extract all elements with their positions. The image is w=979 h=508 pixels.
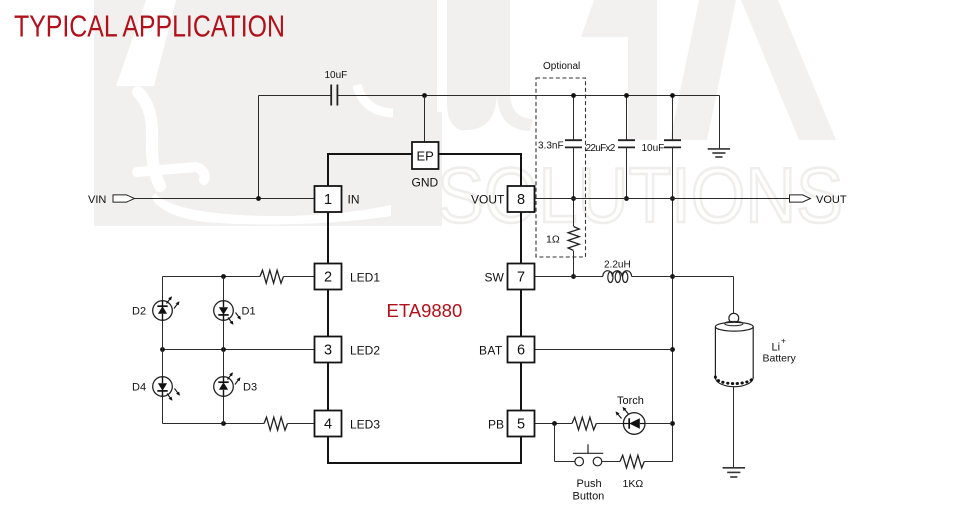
svg-text:Torch: Torch xyxy=(617,395,644,407)
capacitor C 10uF plates xyxy=(331,85,337,106)
pin 8 box xyxy=(508,186,535,212)
svg-text:LED2: LED2 xyxy=(350,343,380,357)
D2 arrows xyxy=(167,297,180,309)
wire c2 bottom xyxy=(626,147,628,198)
node junction top wire c1 xyxy=(571,93,576,98)
capacitor C 10uF right plates xyxy=(664,140,681,147)
ground bottom right xyxy=(723,468,745,477)
svg-text:LED3: LED3 xyxy=(350,417,380,431)
svg-text:GND: GND xyxy=(412,176,439,190)
Optional dashed box xyxy=(536,78,586,257)
svg-text:6: 6 xyxy=(517,343,525,359)
battery bottom dotted ellipse xyxy=(715,377,753,384)
wire top right segment xyxy=(337,95,719,97)
svg-text:D4: D4 xyxy=(132,382,146,394)
watermark letter L bar xyxy=(447,0,533,131)
capacitor C 3.3nF plates xyxy=(565,140,582,147)
capacitor C 22uFx2 branch top xyxy=(626,96,628,141)
node junction above EP xyxy=(422,93,427,98)
battery top ellipse xyxy=(715,322,753,331)
node junction top wire c3 xyxy=(670,93,675,98)
svg-text:8: 8 xyxy=(517,192,525,208)
watermark white slash xyxy=(116,0,176,86)
wire battery drop xyxy=(733,277,735,314)
node junction VIN xyxy=(256,196,261,201)
node junction pb c3 xyxy=(670,421,675,426)
wire d1 top lead xyxy=(223,277,225,301)
svg-text:3: 3 xyxy=(324,343,332,359)
wire d4 bottom lead xyxy=(162,396,164,423)
node junction vout c3 xyxy=(670,196,675,201)
wire LED2 row xyxy=(163,349,315,351)
D1 arrows xyxy=(228,313,241,325)
svg-text:LED1: LED1 xyxy=(350,270,380,284)
svg-text:D2: D2 xyxy=(132,306,146,318)
svg-text:Optional: Optional xyxy=(543,61,580,72)
wire d4 top lead xyxy=(162,350,164,377)
svg-text:10uF: 10uF xyxy=(642,143,665,154)
wire EP riser xyxy=(424,96,426,143)
IC U1 ETA9880 body xyxy=(328,154,521,463)
svg-text:1: 1 xyxy=(324,192,332,208)
node junction d3 bottom xyxy=(221,421,226,426)
svg-text:TYPICAL APPLICATION: TYPICAL APPLICATION xyxy=(14,10,285,44)
wire resistor to junction column xyxy=(644,461,672,463)
pin 5 box xyxy=(508,411,535,437)
wire pb branch down xyxy=(554,424,556,462)
watermark white notch xyxy=(437,0,447,112)
battery side left xyxy=(714,327,716,379)
battery inner ellipse xyxy=(725,321,743,325)
wire d3 top lead xyxy=(223,350,225,377)
node junction vout c2 xyxy=(624,196,629,201)
svg-text:Battery: Battery xyxy=(763,353,797,365)
svg-text:VOUT: VOUT xyxy=(816,194,847,206)
battery BT1 xyxy=(715,313,753,386)
wire button to resistor xyxy=(602,461,620,463)
node junction d1 top xyxy=(221,274,226,279)
svg-text:VOUT: VOUT xyxy=(471,192,505,206)
watermark swoosh xyxy=(152,193,391,224)
svg-text:1Ω: 1Ω xyxy=(546,234,560,246)
watermark letter A left leg xyxy=(670,0,736,140)
node junction top wire c2 xyxy=(624,93,629,98)
battery bottom rim solid xyxy=(715,378,753,387)
svg-text:SW: SW xyxy=(485,270,505,284)
wire pb branch to button xyxy=(555,461,575,463)
wire d2 bottom lead xyxy=(162,320,164,349)
watermark letter L bar body xyxy=(447,0,497,130)
wire c1 bottom xyxy=(573,147,575,226)
wire torch to junction xyxy=(645,423,673,425)
LED D3 xyxy=(214,373,240,397)
svg-text:ETA9880: ETA9880 xyxy=(387,300,463,321)
inductor L 2.2uH xyxy=(603,271,632,283)
pin 4 box xyxy=(315,411,342,437)
wire SW row left xyxy=(535,276,604,278)
node junction bat c3 xyxy=(670,347,675,352)
torch LED D5 xyxy=(616,408,645,435)
push button SW1 xyxy=(573,444,603,466)
svg-text:+: + xyxy=(781,336,786,346)
wire resistor to torch led xyxy=(596,423,623,425)
resistor R LED3 xyxy=(264,417,288,430)
svg-text:Button: Button xyxy=(573,491,605,503)
wire PB stub xyxy=(535,423,573,425)
LED D2 xyxy=(153,297,179,321)
resistor R 1ohm xyxy=(568,227,579,251)
pin 3 box xyxy=(315,337,342,363)
VOUT arrow xyxy=(790,195,811,202)
wire drop to ground top right xyxy=(719,96,721,149)
node junction sw c3 xyxy=(670,274,675,279)
wire resistor to pin2 xyxy=(284,276,315,278)
wire top left segment xyxy=(259,95,332,97)
svg-text:D3: D3 xyxy=(243,382,257,394)
wire resistor to pin4 xyxy=(288,423,315,425)
svg-text:2.2uH: 2.2uH xyxy=(604,260,631,271)
watermark letter T stem xyxy=(628,0,657,140)
svg-text:PB: PB xyxy=(488,417,504,431)
wire VIN lead xyxy=(135,198,315,200)
watermark gray block xyxy=(94,0,442,226)
svg-text:22uFx2: 22uFx2 xyxy=(586,143,616,154)
watermark letter T slab xyxy=(581,0,650,37)
wire LED3 row left xyxy=(163,423,265,425)
svg-text:5: 5 xyxy=(517,417,525,433)
battery terminal xyxy=(729,313,739,323)
pin 6 box xyxy=(508,337,535,363)
pin 7 box xyxy=(508,264,535,290)
watermark letter A right leg xyxy=(741,0,836,140)
wire SW row right xyxy=(632,276,734,278)
watermark letter U bowl white arc xyxy=(357,85,393,113)
wire c3 vertical long xyxy=(672,147,674,461)
node junction sw c1 xyxy=(571,274,576,279)
svg-text:Push: Push xyxy=(577,478,602,490)
watermark script glyph crossbar xyxy=(137,167,205,180)
capacitor C 3.3nF branch top xyxy=(573,96,575,141)
svg-text:7: 7 xyxy=(517,270,525,286)
svg-text:VIN: VIN xyxy=(88,194,106,206)
pin 1 box xyxy=(315,186,342,212)
torch LED arrows xyxy=(616,408,629,419)
wire VOUT row xyxy=(535,198,790,200)
VIN arrow xyxy=(113,195,135,202)
svg-text:D1: D1 xyxy=(242,306,256,318)
svg-text:3.3nF: 3.3nF xyxy=(538,140,564,151)
wire d3 bottom lead xyxy=(223,396,225,423)
svg-text:EP: EP xyxy=(417,148,434,163)
svg-text:2: 2 xyxy=(324,270,332,286)
pin 2 box xyxy=(315,264,342,290)
node junction pb branch xyxy=(552,421,557,426)
EP pad box xyxy=(412,142,439,169)
LED D1 xyxy=(214,301,241,325)
wire battery to ground xyxy=(733,387,735,468)
resistor R 1Kohm xyxy=(620,455,644,468)
wire BAT row xyxy=(535,349,673,351)
svg-text:IN: IN xyxy=(348,192,360,206)
LED D4 xyxy=(153,377,180,401)
wire riser from VIN junction to top wire xyxy=(258,96,260,199)
svg-text:BAT: BAT xyxy=(479,343,503,357)
D3 arrows xyxy=(228,373,241,385)
wire r1 bottom xyxy=(573,251,575,277)
node junction mid d1 xyxy=(221,347,226,352)
wire d1 bottom lead xyxy=(223,320,225,349)
wire d2 top lead xyxy=(162,277,164,301)
D4 arrows xyxy=(167,389,180,401)
watermark script glyph stem xyxy=(138,92,160,186)
svg-text:1KΩ: 1KΩ xyxy=(623,478,644,490)
wire LED1 row left xyxy=(163,276,261,278)
resistor R LED1 xyxy=(260,270,284,283)
battery side right xyxy=(752,327,754,379)
capacitor C 10uF right branch top xyxy=(672,96,674,141)
node junction mid left xyxy=(160,347,165,352)
resistor R torch xyxy=(572,417,596,430)
node junction vout c1 xyxy=(571,196,576,201)
svg-text:10uF: 10uF xyxy=(325,70,348,81)
svg-text:4: 4 xyxy=(324,417,332,433)
ground top right xyxy=(708,149,730,157)
capacitor C 22uFx2 plates xyxy=(618,140,635,147)
